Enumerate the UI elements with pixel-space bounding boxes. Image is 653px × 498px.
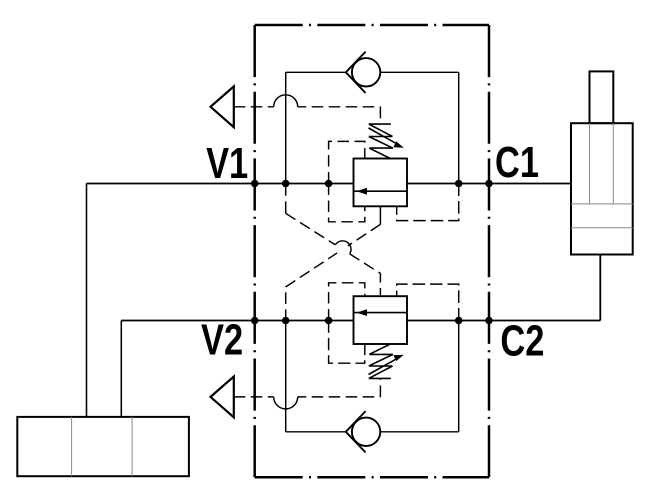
svg-text:V1: V1: [206, 139, 248, 188]
svg-text:C1: C1: [495, 138, 539, 187]
svg-text:V2: V2: [201, 315, 243, 364]
svg-text:C2: C2: [500, 317, 544, 366]
